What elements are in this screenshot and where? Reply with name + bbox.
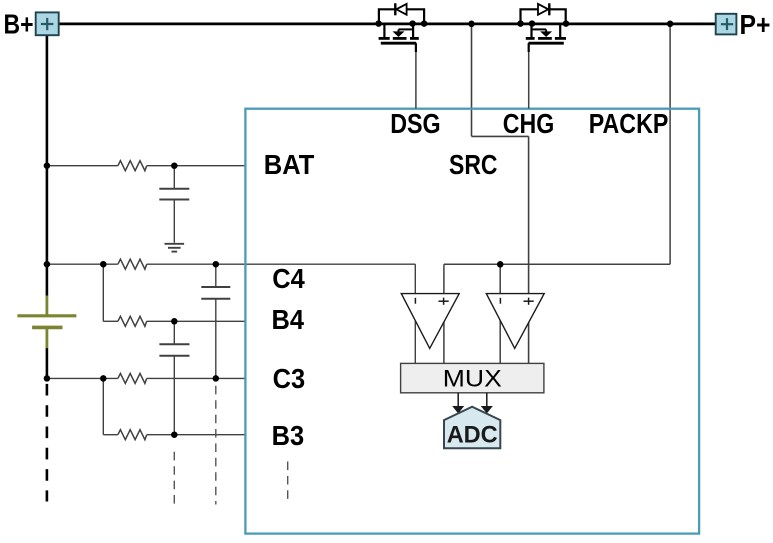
node C3 filter junction [213, 375, 220, 382]
terminal B+ pad [36, 12, 59, 35]
resistor (C3 series filter) [118, 373, 147, 383]
node B4 filter junction [171, 318, 178, 325]
node C3/B3 branch junction [100, 375, 107, 382]
terminal P+ pad [716, 14, 737, 35]
wire SRC net jog (mid-FET node down into SRC and comparator plus) [472, 24, 529, 364]
wire C4 row (battery top tap through resistor to C4 pin and comparator minus) [47, 264, 415, 363]
wire C3 to B3 branch [102, 378, 104, 434]
capacitor (B4-B3 cap) [159, 321, 189, 434]
svg-text:MUX: MUX [443, 366, 502, 393]
node cell4 positive tap [44, 261, 51, 268]
resistor (C4 series filter) [118, 259, 147, 269]
node C4/B4 branch junction [100, 261, 107, 268]
svg-text:P+: P+ [740, 9, 771, 40]
svg-text:B4: B4 [272, 304, 305, 335]
resistor (B3 series) [118, 430, 147, 440]
op-amp A1 (left comparator) [401, 294, 459, 349]
wire C4 to B4 branch [102, 264, 104, 321]
wire B4 row [103, 320, 244, 322]
wire PACKP net (P+ tap down and across to comparator inputs) [444, 24, 670, 364]
svg-text:PACKP: PACKP [589, 108, 669, 139]
MUX U2 [401, 363, 544, 392]
capacitor (BAT filter cap) [159, 166, 189, 243]
wire BAT row (battery top tap to BAT pin) [47, 165, 245, 167]
svg-text:DSG: DSG [390, 108, 441, 139]
node SRC tap on top rail [468, 21, 475, 28]
svg-text:B+: B+ [4, 9, 34, 40]
resistor (B4 series) [118, 316, 147, 326]
node cell3 positive tap [44, 375, 51, 382]
node PACKP to comparator junction [497, 261, 504, 268]
battery BT1 (cell symbol) [17, 296, 76, 349]
arrow MUX to ADC right [481, 393, 493, 414]
svg-text:ADC: ADC [447, 421, 498, 448]
node BAT filter junction [171, 162, 178, 169]
op-amp A2 (right comparator) [486, 294, 544, 349]
dashed battery stack continuation [46, 384, 49, 502]
dashed continuation below B3 node [173, 452, 175, 505]
transistor Q2 CHG MOSFET with body diode D2 (mirrored copy) [517, 3, 569, 108]
svg-text:BAT: BAT [264, 149, 315, 180]
wire C3 row [47, 377, 245, 379]
ground [165, 244, 185, 252]
wire top rail B+ to P+ [58, 23, 715, 26]
dashed continuation inside IC below B3 pin [287, 462, 289, 505]
svg-text:SRC: SRC [449, 149, 498, 180]
wire battery bottom to C3 tap [46, 348, 49, 380]
wire left vertical B+ down to battery [46, 35, 49, 296]
resistor (BAT series filter) [118, 161, 147, 171]
node PACKP tap on top rail [667, 21, 674, 28]
capacitor (C4-C3 differential cap) [201, 264, 230, 378]
transistor Q1 DSG MOSFET with body diode D1 [375, 3, 427, 108]
svg-text:CHG: CHG [503, 108, 555, 139]
wire B3 row [103, 434, 244, 436]
node BAT tap on battery stack [44, 162, 51, 169]
node B3 filter junction [171, 431, 178, 438]
node C4 filter junction [213, 261, 220, 268]
IC U1 boundary [245, 109, 699, 534]
ADC block [444, 407, 500, 449]
svg-text:C4: C4 [272, 263, 305, 294]
arrow MUX to ADC left [452, 393, 464, 414]
svg-text:B3: B3 [272, 420, 305, 451]
dashed continuation below C3 tap [215, 386, 217, 505]
svg-text:C3: C3 [273, 363, 306, 394]
